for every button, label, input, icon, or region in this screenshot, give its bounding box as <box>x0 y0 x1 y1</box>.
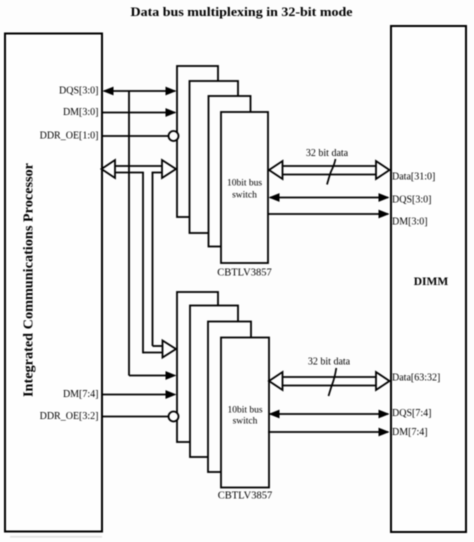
wire DM[7:4] U2 to DIMM <box>268 428 390 437</box>
bus pipe down to U2, hollow elbow <box>143 173 176 358</box>
bus switch U2 stack rear rect 1 <box>177 292 218 442</box>
svg-text:DM[7:4]: DM[7:4] <box>392 427 428 438</box>
svg-text:DM[3:0]: DM[3:0] <box>63 107 99 118</box>
wire DDR_OE[1:0] processor to U1 <box>102 135 168 137</box>
wire DQS[7:4] U2 to DIMM, bidirectional <box>269 410 390 419</box>
svg-text:CBTLV3857: CBTLV3857 <box>217 268 271 279</box>
svg-text:10bit bus: 10bit bus <box>227 179 262 189</box>
wire DQS[3:0] U1 to DIMM, bidirectional <box>269 193 390 202</box>
svg-text:DDR_OE[1:0]: DDR_OE[1:0] <box>40 131 99 142</box>
wire DM[7:4] processor to U2 <box>102 390 177 399</box>
bus arrow U1 to DIMM, hollow bidirectional 32 bit data <box>269 161 390 179</box>
block U3 Integrated Communications Processor box <box>5 34 102 532</box>
bus switch U2 front rect <box>221 338 269 488</box>
svg-text:10bit bus: 10bit bus <box>227 406 262 416</box>
label U2 10bit bus switch <box>227 406 262 427</box>
bus switch U2 stack rect 2 <box>190 306 238 458</box>
bus width slash top <box>327 159 336 185</box>
wire DQS branch down to U2 <box>129 91 177 380</box>
wire DQS[3:0] processor to U1, bidirectional <box>103 87 177 96</box>
svg-text:DQS[3:0]: DQS[3:0] <box>392 195 431 206</box>
svg-text:CBTLV3857: CBTLV3857 <box>218 491 272 502</box>
bus width slash bottom <box>329 368 337 396</box>
bus arrow U2 to DIMM, hollow bidirectional 32 bit data <box>269 372 390 390</box>
bus switch U1 stack rect 3 <box>209 96 251 247</box>
svg-text:switch: switch <box>232 191 257 201</box>
label U1 10bit bus switch <box>227 179 262 201</box>
svg-text:switch: switch <box>233 417 258 427</box>
svg-text:Data[63:32]: Data[63:32] <box>392 373 440 384</box>
svg-text:DM[7:4]: DM[7:4] <box>63 389 99 400</box>
block U4 DIMM box <box>391 26 466 532</box>
bus switch U1 stack rear rect 1 <box>177 66 218 217</box>
svg-text:DQS[3:0]: DQS[3:0] <box>59 86 98 97</box>
inverter bubble on U1 enable pin <box>169 131 179 141</box>
bus switch U1 stack rect 2 <box>190 81 239 233</box>
inverter bubble on U2 enable pin <box>169 412 179 422</box>
svg-text:DM[3:0]: DM[3:0] <box>392 217 428 228</box>
svg-text:Data bus multiplexing in 32-bi: Data bus multiplexing in 32-bit mode <box>131 4 353 19</box>
svg-text:DDR_OE[3:2]: DDR_OE[3:2] <box>40 411 99 422</box>
scan smudge below processor box <box>10 536 102 538</box>
svg-text:Data[31:0]: Data[31:0] <box>392 172 435 183</box>
svg-text:DQS[7:4]: DQS[7:4] <box>392 408 431 419</box>
wire DM[3:0] processor to U1 <box>102 108 177 117</box>
bus switch U1 front rect <box>221 112 268 263</box>
svg-text:32 bit data: 32 bit data <box>308 357 351 368</box>
bus arrow processor to U1, hollow bidirectional <box>102 160 177 178</box>
wire DM[3:0] U1 to DIMM <box>268 210 390 219</box>
bus switch U2 stack rect 3 <box>208 322 251 473</box>
svg-text:32 bit data: 32 bit data <box>306 148 349 159</box>
svg-text:DIMM: DIMM <box>414 276 449 288</box>
svg-text:Integrated Communications Proc: Integrated Communications Processor <box>22 163 37 397</box>
wire DDR_OE[3:2] processor to U2 <box>102 416 168 418</box>
